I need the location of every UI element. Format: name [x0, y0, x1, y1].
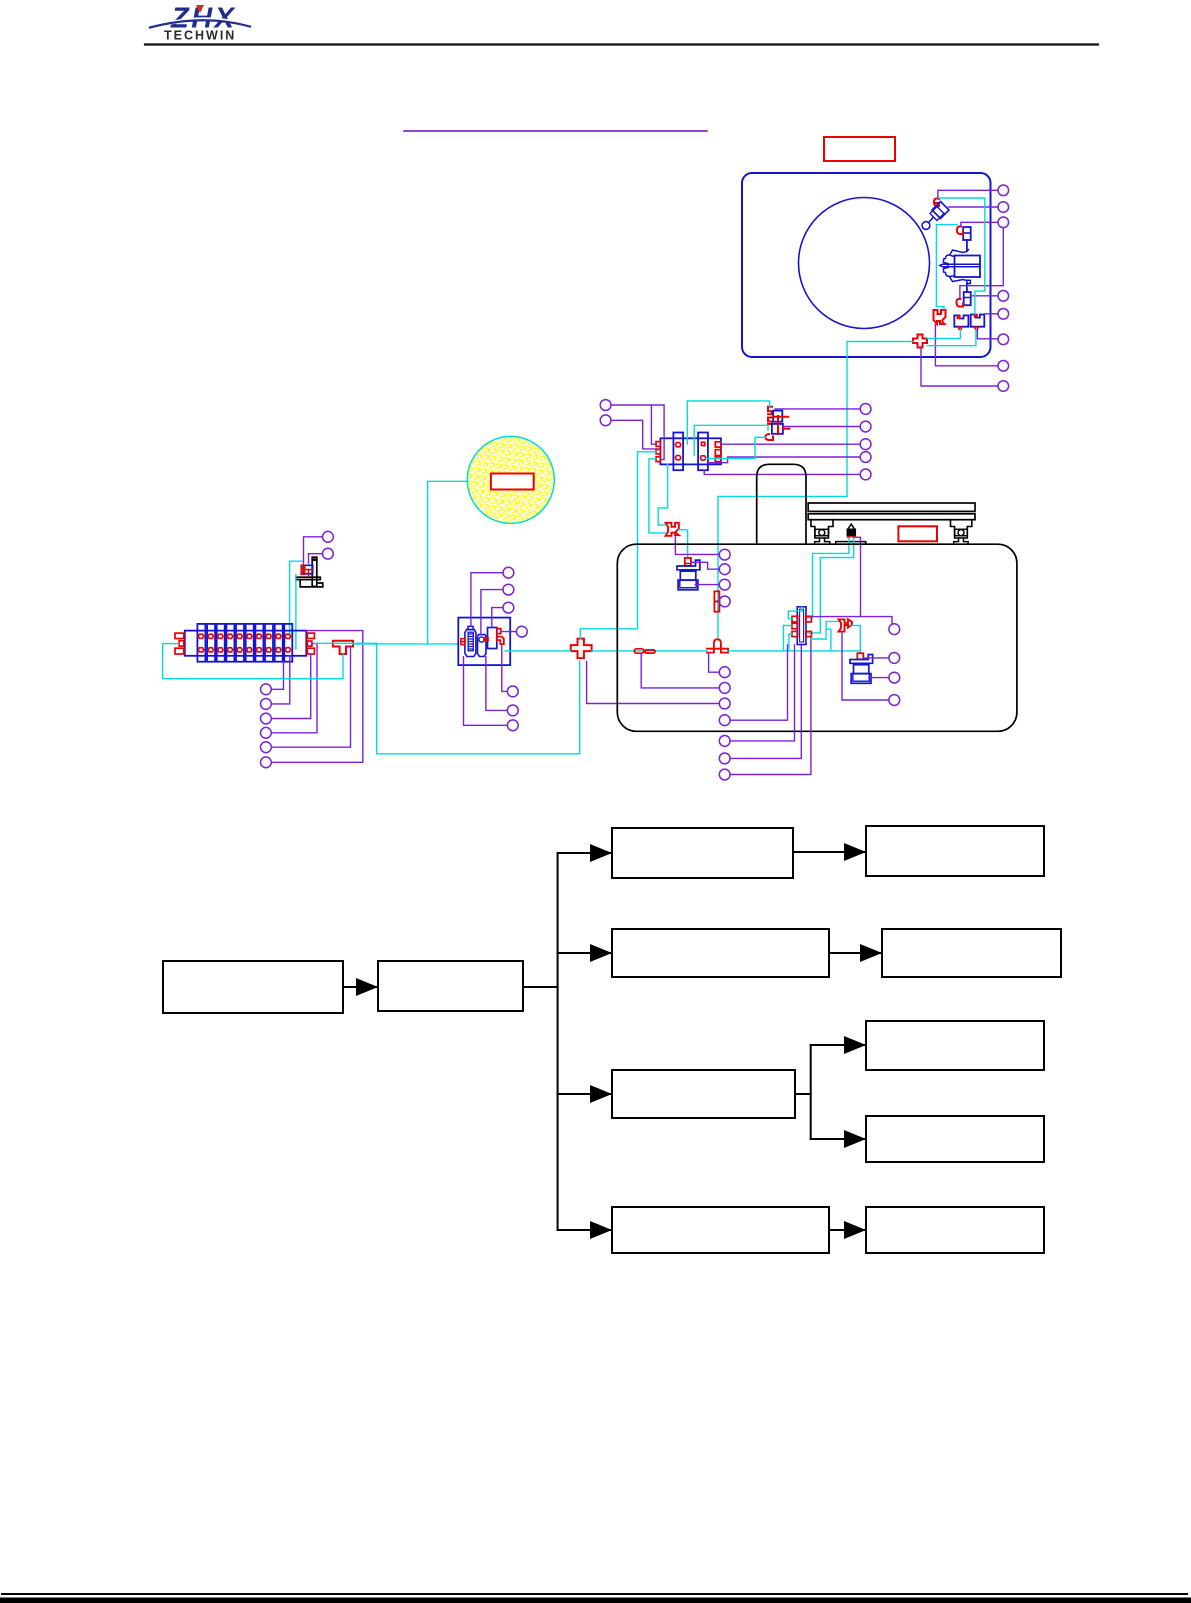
air line manifold left loop — [163, 644, 343, 679]
wire balloon1 — [938, 190, 998, 197]
balloon c5 — [719, 667, 730, 678]
air line valve port L3 to Y2 — [649, 459, 665, 533]
wire g4 — [501, 631, 517, 633]
balloon r4 — [889, 695, 900, 706]
bracket horizontal bar — [296, 577, 320, 579]
link rod — [929, 218, 933, 223]
FRL top red square — [497, 629, 501, 634]
solenoid blue body — [303, 565, 313, 574]
balloon g6 — [507, 705, 518, 716]
fitting cross X1 — [913, 335, 927, 348]
pump P1 suction port — [685, 558, 691, 566]
balloon c8 — [719, 715, 730, 726]
DM1 port L2 — [792, 623, 798, 629]
air line manifold right out — [314, 643, 579, 754]
pump P2 suction port — [857, 653, 863, 659]
air line slatA to F4 — [687, 401, 769, 444]
wire balloon5 — [984, 313, 998, 315]
filter element hatch — [469, 634, 473, 649]
wire c9 — [730, 645, 794, 741]
balloon f3 — [261, 713, 272, 724]
air line cross top to valve port L2 — [580, 452, 656, 639]
flow arrow branch1 — [793, 851, 864, 853]
wire m1 — [775, 408, 860, 410]
wire m5 — [704, 470, 860, 474]
balloon c11 — [719, 769, 730, 780]
valve V1 — [963, 227, 971, 240]
air line F1 loop — [939, 198, 985, 314]
air line DM1 top loop — [788, 607, 802, 619]
air line Y2 to pump P1 — [679, 530, 688, 558]
balloon 5 — [998, 309, 1009, 320]
wire g1 — [471, 573, 503, 626]
port L2 — [656, 449, 660, 454]
flow box branch1 — [612, 828, 793, 878]
fitting Y1 — [934, 310, 946, 324]
balloon t1 — [600, 400, 611, 411]
balloon 4 — [998, 291, 1009, 302]
fitting stack F4 red stem — [777, 416, 779, 434]
balloon 1 — [998, 185, 1009, 196]
port L1 — [656, 442, 660, 447]
fitting cross X2 — [571, 639, 592, 659]
balloon c4 — [719, 596, 730, 607]
label rect (red) top — [824, 137, 895, 161]
flow arrow trunk-branch3 — [558, 1093, 610, 1095]
svg-text:TECHWIN: TECHWIN — [164, 29, 236, 43]
wire balloon8 — [921, 348, 998, 386]
wire balloon2 — [949, 206, 999, 208]
solenoid red port b — [301, 571, 305, 574]
balloon c2 — [719, 564, 730, 575]
logo red triangle — [196, 5, 204, 13]
balloon 8 — [998, 381, 1009, 392]
air line valve bottom to Y2 top — [658, 464, 667, 525]
air line muffler to FRL — [428, 481, 468, 643]
balloon c9 — [719, 736, 730, 747]
balloon c6 — [719, 683, 730, 694]
balloon g4 — [516, 626, 527, 637]
valve block V3 slat B — [698, 433, 708, 471]
crank circle — [922, 222, 930, 230]
fitting stack F4 elbow top — [768, 407, 772, 415]
header rule — [145, 43, 1098, 45]
pump P2 motor — [854, 665, 869, 674]
motor shaft — [940, 264, 980, 267]
wire g2 — [481, 590, 503, 635]
wire DM1 R1 to balloon r1 — [811, 617, 892, 624]
bolt dot B1 — [701, 442, 704, 445]
level gauge LG1 — [714, 591, 719, 601]
balloon f5 — [261, 742, 272, 753]
fitting elbow F2 — [957, 226, 963, 234]
balloon m2 — [860, 421, 871, 432]
flow box branch3 result b — [866, 1116, 1044, 1162]
air line slatB to F4 — [694, 425, 768, 455]
wire manifold loop to balloon f6 — [271, 631, 363, 763]
pump P1 bracket — [677, 560, 700, 570]
suction line long (cross X1 to strainer) — [718, 342, 913, 640]
port R2 — [715, 450, 721, 456]
manifold slats — [197, 624, 292, 662]
DM1 port R1 — [806, 616, 812, 622]
solenoid red port a — [301, 565, 305, 569]
wire g7 — [464, 657, 508, 726]
balloon k1 — [323, 531, 334, 542]
balloon c1 — [719, 549, 730, 560]
flow box branch2 — [612, 929, 829, 977]
air line nozzle A — [806, 538, 849, 618]
flow arrow branch4 — [829, 1229, 864, 1231]
wire m4 — [708, 457, 860, 463]
wire Y3 bottom to balloon r4 — [842, 632, 889, 700]
fitting stack F4 blue body lower — [772, 424, 783, 434]
manifold port L1 — [175, 633, 184, 638]
flow box stage2 — [378, 961, 523, 1011]
balloon k2 — [323, 548, 334, 559]
table plate lower — [808, 514, 975, 520]
muffler label rect — [491, 474, 534, 490]
wire f4 — [271, 644, 317, 733]
nozzle N1 — [848, 524, 855, 529]
bracket L foot — [300, 580, 323, 587]
footer thick bar — [0, 1598, 1191, 1603]
flow connector branch3 split — [795, 1093, 811, 1095]
balloon r1 — [889, 624, 900, 635]
wire t1 — [611, 405, 664, 460]
wire t2 — [611, 420, 656, 449]
air line FRL to cross — [505, 650, 571, 652]
fitting stack F4 red stub — [783, 428, 790, 430]
motor top bracket — [950, 250, 969, 255]
balloon g7 — [507, 720, 518, 731]
balloon r2 — [889, 653, 900, 664]
balloon m1 — [860, 404, 871, 415]
balloon g2 — [503, 584, 514, 595]
flow arrow trunk-branch2 — [558, 952, 610, 954]
footer thin rule — [2, 1593, 1187, 1595]
wire nozzle purple — [855, 537, 860, 616]
air line left loop — [936, 225, 957, 310]
FRL outlet elbow — [497, 637, 504, 645]
balloon f6 — [261, 757, 272, 768]
air line PV1 to cross — [927, 330, 960, 339]
balloon g3 — [503, 602, 514, 613]
wire lozenge to balloon — [641, 653, 719, 688]
balloon g1 — [503, 567, 514, 578]
regulator red square mid — [485, 638, 488, 641]
pilot valve PV1 — [954, 315, 968, 326]
pump P1 motor — [680, 571, 696, 580]
right slide bracket — [951, 520, 972, 538]
air line main across tank — [728, 650, 860, 652]
flow arrow branch3a — [811, 1044, 864, 1046]
wire k2 — [309, 554, 323, 564]
flow arrow branch2 — [829, 952, 880, 954]
motor bell housing — [944, 255, 955, 277]
wire P1 port to balloon — [691, 562, 719, 569]
wire balloon3 branch — [960, 228, 1003, 299]
flow arrow trunk-branch4 — [558, 1229, 610, 1231]
fitting stack F4 blue body — [773, 411, 782, 422]
fitting Y3 — [839, 619, 853, 631]
left foot — [815, 538, 830, 544]
distribution manifold DM1 — [797, 607, 806, 645]
wire t1 branch — [651, 405, 656, 444]
filter bowl — [465, 630, 476, 657]
fitting Y2 — [666, 523, 679, 536]
clutch diamond — [932, 202, 949, 219]
regulator body — [488, 628, 497, 649]
pump P2 bracket — [850, 655, 873, 664]
balloon g5 — [507, 686, 518, 697]
balloon f2 — [261, 699, 272, 710]
fitting stack F4 elbow mid — [768, 418, 772, 425]
flow box branch4 — [612, 1207, 829, 1253]
manifold port R1 — [307, 633, 314, 638]
manifold port L2 — [179, 641, 184, 646]
flow connector trunk — [523, 986, 558, 988]
right foot — [954, 538, 968, 544]
wire P1 base to balloon — [695, 584, 719, 586]
balloon c7 — [719, 698, 730, 709]
flow arrow branch3b — [811, 1138, 864, 1140]
fitting stack F4 elbow bottom — [766, 434, 774, 440]
bolt dot B2 — [700, 456, 705, 460]
wire balloon7 — [935, 325, 998, 366]
nozzle base plate — [836, 542, 866, 545]
nozzle red band — [847, 536, 851, 538]
manifold body — [185, 631, 306, 656]
manifold port R3 — [307, 648, 314, 654]
drain fitting lozenge — [634, 649, 644, 653]
muffler circle (yellow) — [467, 436, 554, 523]
FRL inlet port — [461, 639, 465, 642]
flow box branch4 result — [866, 1207, 1044, 1253]
DM1 port L3 — [792, 631, 798, 636]
flow arrow 1-2 — [343, 986, 376, 988]
pump P2 base box — [851, 674, 871, 684]
balloon 2 — [998, 202, 1009, 213]
title underline — [404, 130, 707, 132]
balloon f1 — [261, 684, 272, 695]
wire LG1 to balloon — [718, 600, 720, 602]
valve block V3 slat A — [673, 433, 683, 471]
manifold port L3 — [175, 648, 184, 654]
fitting elbow F3 — [957, 299, 964, 307]
air line DM1 L2 drop — [783, 626, 792, 651]
motor M1 body — [955, 256, 981, 278]
manifold port R2 — [307, 641, 312, 646]
manifold bolt dots row1 — [198, 634, 290, 638]
port R3 — [715, 457, 721, 462]
wire balloon3 — [961, 222, 998, 226]
air line Y3 right to P2 — [852, 626, 860, 654]
air line DM1 L3 drop — [789, 634, 792, 651]
wire balloon6 — [977, 330, 998, 339]
valve V2 — [964, 292, 971, 305]
bolt dot A1 — [675, 443, 680, 447]
balloon m5 — [860, 469, 871, 480]
balloon c3 — [719, 579, 730, 590]
wire balloon4 — [971, 295, 998, 297]
flow box branch2 result — [882, 929, 1061, 977]
tank body — [617, 544, 1017, 731]
pilot valve PV2 — [971, 315, 985, 327]
air line tee T1 to FRL — [353, 643, 458, 645]
table plate top — [808, 503, 975, 511]
wire Y2 bottom to balloon — [675, 537, 719, 555]
wire f1 — [271, 662, 283, 690]
wire m2 — [783, 426, 860, 428]
wire g5 — [502, 645, 508, 691]
wire c11 — [730, 637, 811, 775]
motor bottom bracket — [950, 278, 967, 282]
balloon c10 — [719, 753, 730, 764]
FRL enclosure — [458, 618, 510, 666]
air line Y3 left — [811, 621, 838, 639]
enclosure box U1 — [742, 173, 991, 357]
air line cross to tank (main pressure) — [592, 650, 707, 652]
wire f2 — [271, 656, 290, 704]
bolt dot A2 — [675, 456, 680, 460]
port L3 — [656, 457, 660, 462]
wire c8 — [730, 645, 787, 720]
wire m3 — [721, 443, 860, 445]
bracket vertical bar — [312, 557, 317, 586]
balloon m3 — [860, 439, 871, 450]
pump P1 base box — [678, 580, 698, 590]
valve V2 stem block — [967, 280, 970, 283]
solenoid red tee — [305, 570, 312, 577]
wire g6 — [486, 657, 508, 711]
flow arrow trunk-branch1 — [558, 852, 610, 854]
suction strainer T2 — [707, 639, 728, 652]
air line main stub — [826, 629, 831, 651]
flow box start — [163, 961, 343, 1013]
fitting stack F4 red bar — [773, 416, 788, 418]
flow box branch3 — [612, 1070, 795, 1118]
wire k1 — [304, 537, 323, 565]
wire cross X2 bottom drain — [587, 662, 720, 704]
logo swoosh arc — [158, 19, 244, 26]
wire g3 — [492, 608, 503, 628]
fitting curl F1 — [934, 198, 939, 206]
air line bracket down b — [295, 575, 297, 649]
wire P2 port to balloon r2 — [863, 657, 889, 659]
balloon 3 — [998, 217, 1009, 228]
fitting tee T1 — [333, 641, 353, 654]
balloon m4 — [860, 452, 871, 463]
wire P2 base to balloon r3 — [869, 677, 889, 679]
wire strainer to balloon — [709, 653, 720, 673]
flow box branch1 result — [866, 826, 1044, 876]
port R1 — [715, 442, 721, 447]
air line V3 to F4 bottom — [706, 437, 766, 458]
valve block V3 body — [660, 438, 721, 464]
balloon 7 — [998, 361, 1009, 372]
press label rect (red) — [898, 526, 937, 541]
balloon r3 — [889, 672, 900, 683]
DM1 port R3 — [806, 631, 812, 636]
air line nozzle B — [806, 538, 854, 633]
manifold bolt dots row2 — [198, 648, 290, 652]
air line PV2 to cross — [927, 330, 976, 346]
bracket top square — [313, 558, 316, 561]
lubricator bowl — [478, 635, 487, 657]
press column — [757, 464, 806, 544]
balloon 6 — [998, 334, 1009, 345]
wire f5 — [271, 647, 350, 748]
balloon t2 — [600, 415, 611, 426]
air line bracket down a — [290, 561, 302, 633]
left slide bracket — [811, 520, 833, 538]
balloon f4 — [261, 727, 272, 738]
wire f3 — [271, 654, 310, 719]
flywheel circle — [799, 198, 930, 329]
DM1 port L1 — [792, 616, 798, 622]
wire c10 — [730, 645, 801, 758]
flow box branch3 result a — [866, 1021, 1044, 1070]
